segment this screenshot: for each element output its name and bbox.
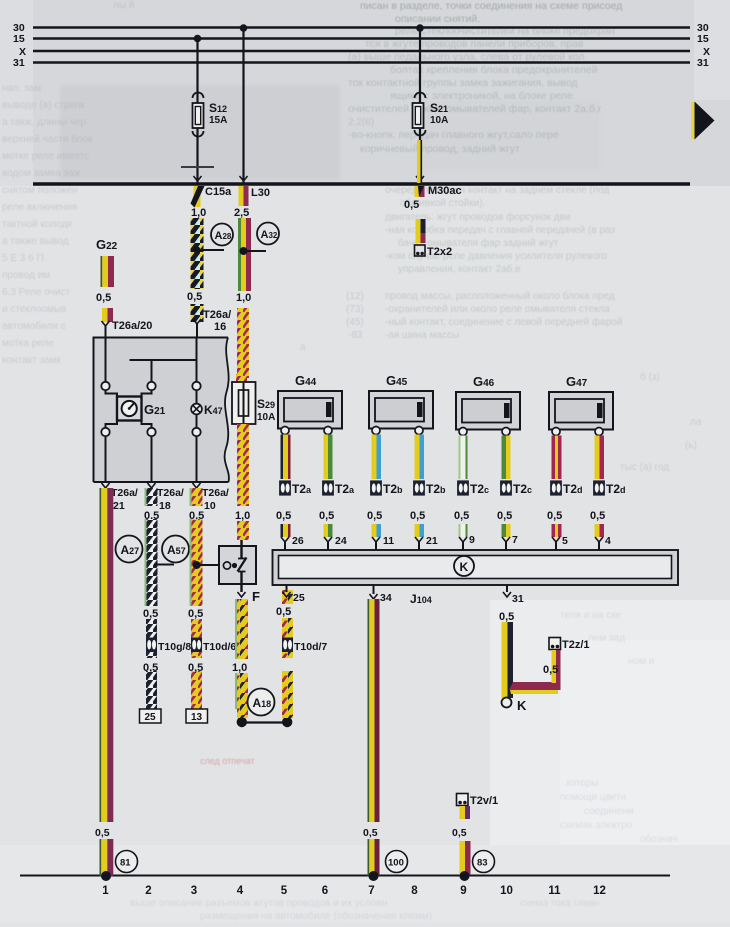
svg-text:болтах крепления блока предохр: болтах крепления блока предохранителей	[390, 64, 598, 76]
svg-text:2: 2	[145, 885, 151, 897]
svg-text:S12: S12	[209, 101, 227, 115]
svg-text:81: 81	[120, 858, 131, 869]
svg-text:A18: A18	[253, 696, 272, 710]
svg-text:а: а	[300, 342, 306, 353]
svg-text:10: 10	[500, 885, 513, 897]
svg-text:2,2(6): 2,2(6)	[348, 117, 374, 128]
svg-text:ящике с электроникой, на блоке: ящике с электроникой, на блоке реле	[390, 90, 573, 102]
svg-text:T2b: T2b	[426, 482, 446, 496]
svg-text:0,5: 0,5	[143, 608, 158, 620]
svg-text:0,5: 0,5	[276, 606, 291, 618]
svg-text:0,5: 0,5	[363, 827, 378, 839]
svg-text:A28: A28	[215, 230, 232, 242]
svg-text:автомобили с: автомобили с	[2, 320, 66, 332]
svg-text:двигатель: жгут проводов форсу: двигатель: жгут проводов форсунок дви	[385, 211, 570, 223]
svg-text:T2b: T2b	[383, 482, 403, 496]
svg-text:лем зад: лем зад	[588, 633, 625, 644]
svg-text:T2c: T2c	[513, 482, 532, 496]
svg-text:управления, контакт 2аб,е: управления, контакт 2аб,е	[398, 263, 521, 275]
svg-text:4: 4	[605, 535, 611, 547]
svg-text:б (з): б (з)	[640, 371, 660, 383]
svg-text:18: 18	[159, 500, 171, 512]
svg-text:0,5: 0,5	[319, 510, 334, 522]
svg-text:7: 7	[512, 534, 518, 546]
svg-text:0,5: 0,5	[188, 608, 203, 620]
svg-text:и стеклоомыв: и стеклоомыв	[2, 304, 66, 315]
svg-text:T2v/1: T2v/1	[470, 795, 498, 807]
svg-text:25: 25	[145, 712, 157, 723]
svg-text:T2a: T2a	[292, 482, 312, 496]
svg-text:0,5: 0,5	[276, 510, 291, 522]
svg-text:ток контактной группы замка за: ток контактной группы замка зажигания, в…	[348, 77, 577, 89]
svg-text:2,5: 2,5	[234, 207, 249, 219]
svg-text:-во-кнопк. передач главного жг: -во-кнопк. передач главного жгут,сало пе…	[348, 129, 559, 141]
svg-text:T10g/8: T10g/8	[158, 641, 191, 653]
svg-text:нап. зам: нап. зам	[2, 83, 41, 94]
svg-text:24: 24	[335, 535, 347, 547]
svg-text:0,5: 0,5	[96, 292, 111, 304]
svg-text:-охранителей или около реле ом: -охранителей или около реле омывателя ст…	[385, 304, 610, 315]
svg-text:T10d/7: T10d/7	[294, 641, 327, 653]
svg-text:коричневый провод, задний жгут: коричневый провод, задний жгут	[360, 143, 520, 155]
svg-text:схемах электро: схемах электро	[560, 820, 633, 831]
svg-text:12: 12	[593, 885, 606, 897]
svg-text:контакт замк: контакт замк	[2, 355, 61, 366]
svg-text:тся в жгуте проводов панели пр: тся в жгуте проводов панели приборов, пр…	[365, 38, 584, 50]
svg-text:очистителей с реле омывателей: очистителей с реле омывателей фар, конта…	[348, 103, 602, 115]
svg-text:26: 26	[292, 535, 304, 547]
svg-text:A27: A27	[121, 543, 140, 557]
svg-text:K: K	[460, 560, 469, 574]
svg-text:T26a/: T26a/	[203, 309, 231, 321]
svg-text:7: 7	[368, 885, 374, 897]
svg-text:T26a/: T26a/	[111, 487, 138, 499]
svg-text:соединени: соединени	[584, 806, 634, 817]
svg-text:34: 34	[380, 592, 392, 604]
svg-text:реле включения: реле включения	[2, 202, 77, 213]
svg-text:T2x2: T2x2	[427, 246, 452, 258]
svg-text:лы й: лы й	[113, 0, 134, 11]
svg-text:провод им: провод им	[2, 270, 50, 281]
svg-text:5: 5	[281, 885, 288, 897]
svg-text:3: 3	[191, 885, 197, 897]
svg-text:-ный контакт, соединение с лев: -ный контакт, соединение с левой передне…	[385, 316, 622, 328]
svg-text:T2z/1: T2z/1	[562, 639, 590, 651]
svg-text:(12): (12)	[346, 291, 364, 302]
svg-text:1,0: 1,0	[235, 510, 250, 522]
svg-text:21: 21	[113, 500, 125, 512]
svg-text:(73): (73)	[346, 304, 364, 315]
svg-text:а такж. длины чер: а такж. длины чер	[2, 117, 87, 128]
svg-text:1,0: 1,0	[236, 292, 251, 304]
svg-text:5 Е 3 6 П: 5 Е 3 6 П	[2, 253, 44, 264]
svg-text:провод массы, расположенный ок: провод массы, расположенный около блока …	[385, 290, 615, 302]
svg-text:ном и: ном и	[628, 656, 654, 667]
svg-text:0,5: 0,5	[547, 510, 562, 522]
svg-text:помощи цветн: помощи цветн	[560, 792, 626, 803]
svg-text:C15a: C15a	[205, 186, 232, 198]
svg-text:след отпечат: след отпечат	[200, 756, 254, 766]
svg-text:A57: A57	[167, 543, 186, 557]
svg-text:6: 6	[322, 885, 328, 897]
svg-text:тыс (а) год: тыс (а) год	[620, 462, 669, 473]
svg-text:0,5: 0,5	[543, 664, 558, 676]
svg-text:T2a: T2a	[335, 482, 355, 496]
svg-text:4: 4	[237, 885, 244, 897]
svg-text:-83: -83	[348, 330, 363, 341]
svg-text:31: 31	[13, 57, 25, 69]
svg-text:11: 11	[548, 885, 561, 897]
svg-text:S21: S21	[430, 101, 448, 115]
svg-text:K47: K47	[204, 403, 223, 417]
svg-text:описании снятий.: описании снятий.	[395, 13, 480, 25]
svg-text:0,5: 0,5	[404, 199, 419, 211]
svg-text:0,5: 0,5	[367, 510, 382, 522]
svg-text:25: 25	[293, 592, 305, 604]
svg-text:S29: S29	[257, 397, 275, 411]
svg-text:8: 8	[411, 885, 418, 897]
svg-text:а также вывод: а также вывод	[2, 236, 69, 247]
svg-text:16: 16	[214, 321, 226, 333]
svg-text:M30ac: M30ac	[428, 185, 462, 197]
svg-text:6.3 Реле очист: 6.3 Реле очист	[2, 287, 70, 298]
svg-text:снятом положен: снятом положен	[2, 185, 78, 196]
svg-text:J104: J104	[410, 592, 432, 606]
svg-text:-ая шина массы: -ая шина массы	[385, 330, 459, 341]
svg-text:тактной колодк: тактной колодк	[2, 219, 72, 230]
svg-text:13: 13	[191, 712, 203, 723]
svg-text:писан в разделе, точки соедине: писан в разделе, точки соединения на схе…	[360, 0, 622, 12]
svg-text:100: 100	[388, 858, 404, 869]
svg-text:T26a/20: T26a/20	[112, 320, 152, 332]
svg-text:теля и на схе: теля и на схе	[560, 610, 622, 621]
svg-text:10A: 10A	[430, 115, 448, 126]
svg-text:0,5: 0,5	[497, 510, 512, 522]
svg-text:T26a/: T26a/	[202, 487, 229, 499]
svg-text:0,5: 0,5	[452, 827, 467, 839]
svg-text:10: 10	[204, 500, 216, 512]
svg-text:обознач: обознач	[640, 833, 677, 845]
svg-text:15A: 15A	[209, 115, 227, 126]
svg-text:0,5: 0,5	[188, 662, 203, 674]
svg-text:выводе (а) стрелк: выводе (а) стрелк	[2, 100, 85, 111]
svg-text:0,5: 0,5	[454, 510, 469, 522]
svg-text:A32: A32	[261, 229, 278, 241]
svg-text:21: 21	[426, 535, 438, 547]
svg-text:ла: ла	[690, 417, 702, 428]
svg-text:0,5: 0,5	[410, 510, 425, 522]
svg-text:T26a/: T26a/	[157, 487, 184, 499]
svg-text:0,5: 0,5	[95, 827, 110, 839]
svg-text:F: F	[252, 589, 260, 604]
svg-text:9: 9	[460, 885, 466, 897]
svg-text:0,5: 0,5	[143, 662, 158, 674]
svg-text:выше описание разъемов жгутов: выше описание разъемов жгутов проводов и…	[130, 898, 387, 909]
svg-text:которы: которы	[566, 778, 599, 789]
svg-text:мотка реле: мотка реле	[2, 338, 54, 349]
svg-text:размещения на автомобиле (обоз: размещения на автомобиле (обозначения кл…	[200, 910, 432, 922]
svg-text:T2d: T2d	[606, 482, 626, 496]
svg-text:5: 5	[562, 535, 568, 547]
svg-text:0,5: 0,5	[187, 291, 202, 303]
svg-text:0,5: 0,5	[590, 510, 605, 522]
svg-text:31: 31	[697, 57, 709, 69]
svg-text:0,5: 0,5	[499, 611, 514, 623]
svg-text:схема тока главн: схема тока главн	[520, 898, 599, 909]
svg-text:15: 15	[13, 33, 25, 45]
svg-text:(45): (45)	[346, 317, 364, 328]
svg-text:T10d/6: T10d/6	[203, 641, 236, 653]
svg-text:T2c: T2c	[470, 482, 489, 496]
svg-text:15: 15	[697, 33, 709, 45]
svg-text:(ь): (ь)	[685, 440, 697, 451]
svg-text:1: 1	[102, 885, 109, 897]
svg-text:T2d: T2d	[563, 482, 583, 496]
svg-text:(а) выше педального узла, сле: (а) выше педального узла, слева от рулев…	[348, 51, 585, 63]
svg-text:9: 9	[469, 534, 475, 546]
svg-text:мотке реле имеетс: мотке реле имеетс	[2, 151, 89, 162]
svg-text:83: 83	[477, 858, 488, 869]
svg-text:K: K	[517, 698, 527, 713]
svg-text:31: 31	[512, 593, 524, 605]
svg-text:1,0: 1,0	[191, 207, 206, 219]
svg-text:11: 11	[383, 535, 394, 547]
svg-text:L30: L30	[251, 187, 270, 199]
svg-text:верхней части блок: верхней части блок	[2, 133, 93, 145]
svg-text:10A: 10A	[257, 412, 275, 423]
svg-text:водом замка заж: водом замка заж	[2, 168, 81, 179]
svg-text:1,0: 1,0	[232, 662, 247, 674]
